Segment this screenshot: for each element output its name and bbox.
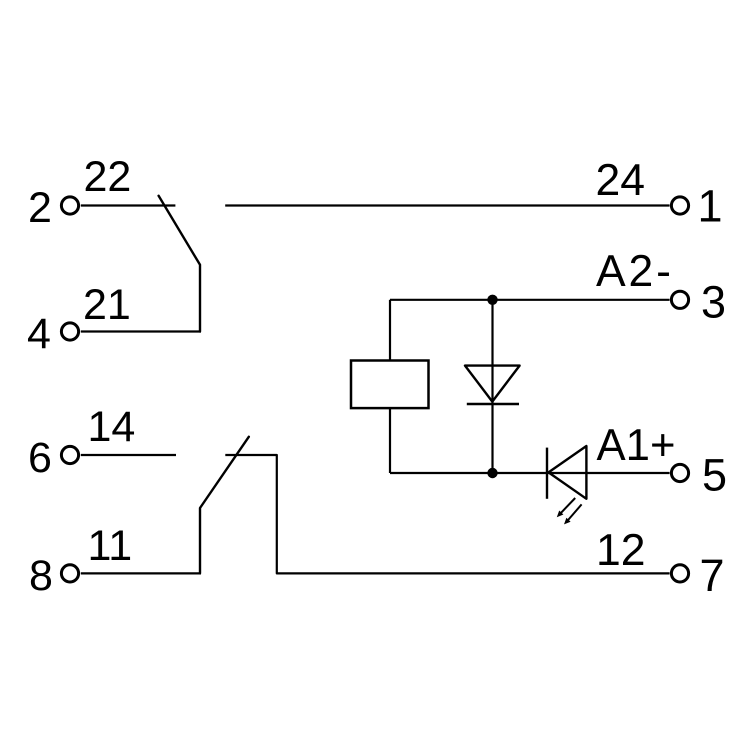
label 5 bbox=[702, 450, 727, 501]
junction node top (A2 rail) bbox=[487, 295, 497, 305]
relay coil K1 bbox=[351, 361, 429, 409]
label 4 bbox=[27, 310, 51, 358]
label 14 bbox=[88, 403, 136, 451]
diode D1 (freewheeling, cathode up) bbox=[465, 366, 520, 404]
terminal 1 bbox=[671, 197, 688, 214]
svg-text:7: 7 bbox=[700, 550, 725, 601]
junction node bottom (A1 rail) bbox=[487, 468, 497, 478]
label 6 bbox=[28, 434, 52, 482]
terminal 6 bbox=[61, 446, 78, 463]
svg-text:2: 2 bbox=[28, 184, 52, 232]
wire A2- rail to terminal 3 bbox=[390, 299, 670, 301]
wire fixed contact 12 to terminal 7 bbox=[225, 455, 669, 573]
label 2 bbox=[28, 184, 52, 232]
label 1 bbox=[698, 181, 723, 232]
svg-text:24: 24 bbox=[596, 156, 646, 205]
svg-text:12: 12 bbox=[596, 526, 646, 575]
terminal 8 bbox=[61, 565, 78, 582]
svg-text:21: 21 bbox=[83, 281, 131, 329]
wire from switch to terminal 1 (contact 24) bbox=[225, 204, 669, 206]
svg-text:8: 8 bbox=[29, 552, 53, 600]
wire A1+ rail to terminal 5 bbox=[390, 472, 670, 474]
svg-text:A2-: A2- bbox=[596, 247, 671, 296]
label 8 bbox=[29, 552, 53, 600]
label 11 bbox=[88, 522, 133, 570]
svg-text:4: 4 bbox=[27, 310, 51, 358]
label A2- bbox=[596, 247, 671, 296]
switch arm K1 (changeover contact 22-21) bbox=[159, 196, 200, 332]
wire from terminal 8 to switch arm bbox=[81, 572, 201, 574]
wire from terminal 4 to switch arm bbox=[81, 330, 201, 332]
label 24 bbox=[596, 156, 646, 205]
label 7 bbox=[700, 550, 725, 601]
svg-text:1: 1 bbox=[698, 181, 723, 232]
terminal 2 bbox=[61, 197, 78, 214]
wire relay coil to A1+ rail bbox=[389, 408, 391, 473]
wire from terminal 2 to switch contact bbox=[81, 204, 176, 206]
label 22 bbox=[84, 153, 132, 201]
wire diode branch vertical bbox=[491, 300, 493, 473]
terminal 7 bbox=[671, 565, 688, 582]
wire from terminal 6 to switch contact bbox=[81, 454, 176, 456]
terminal 3 bbox=[671, 291, 688, 308]
svg-text:5: 5 bbox=[702, 450, 727, 501]
terminal 5 bbox=[671, 464, 688, 481]
svg-text:14: 14 bbox=[88, 403, 136, 451]
switch arm K2 (contact 11-14) bbox=[200, 437, 249, 574]
svg-text:22: 22 bbox=[84, 153, 132, 201]
svg-text:11: 11 bbox=[88, 522, 133, 570]
LED D2 (cathode left) bbox=[547, 446, 586, 499]
label 3 bbox=[701, 277, 726, 328]
terminal 4 bbox=[61, 323, 78, 340]
label 12 bbox=[596, 526, 646, 575]
LED emission arrow 2 bbox=[564, 504, 582, 524]
label A1+ bbox=[597, 421, 676, 470]
svg-text:6: 6 bbox=[28, 434, 52, 482]
LED emission arrow 1 bbox=[557, 498, 575, 517]
svg-text:A1+: A1+ bbox=[597, 421, 676, 470]
label 21 bbox=[83, 281, 131, 329]
wire left branch down to relay coil bbox=[389, 300, 391, 361]
svg-text:3: 3 bbox=[701, 277, 726, 328]
